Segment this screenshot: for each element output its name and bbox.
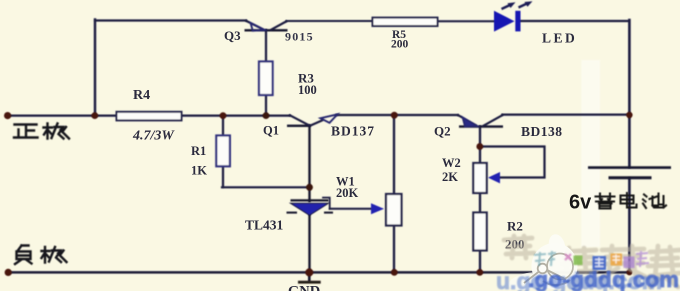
watermark teal small text — [534, 251, 556, 266]
wire R1 bottom stub — [222, 166, 224, 187]
svg-text:LED: LED — [542, 31, 577, 46]
wire W1 top — [393, 115, 395, 194]
node positive rail endpoint — [4, 112, 11, 119]
svg-text:1K: 1K — [191, 164, 207, 178]
svg-text:200: 200 — [391, 39, 409, 51]
LED triangle — [494, 11, 515, 32]
wire TL431 anode to ground rail — [308, 215, 310, 273]
Q2 base bar — [459, 125, 503, 127]
glyph 蓄 — [596, 194, 615, 209]
W2 wiper arrow — [488, 172, 500, 183]
svg-text:R4: R4 — [133, 88, 150, 103]
node battery top junction — [626, 112, 632, 118]
svg-text:20K: 20K — [336, 186, 359, 200]
wire R1 to TL431 node — [222, 186, 310, 188]
Q3 collector slant — [270, 21, 287, 30]
erased white band — [582, 60, 601, 247]
battery short plate — [609, 176, 652, 179]
watermark blue url text — [496, 267, 679, 291]
node W1 junction — [391, 112, 398, 119]
Q3 base bar — [245, 29, 288, 31]
Q1 emitter arrow — [321, 114, 338, 123]
TL431 U1 — [245, 200, 333, 232]
resistor R4 — [117, 88, 182, 144]
Q2 emitter arrow — [463, 117, 478, 126]
svg-text:R1: R1 — [191, 144, 206, 158]
wire bottom negative rail — [8, 271, 630, 274]
Q1 emitter slant — [310, 120, 323, 126]
wire R3 to main rail — [265, 95, 267, 116]
svg-text:100: 100 — [298, 83, 317, 97]
wire W2 to R2 — [479, 193, 481, 213]
wire top left segment — [95, 19, 246, 21]
potentiometer W1 — [336, 175, 402, 226]
Q3 emitter slant — [246, 21, 265, 31]
wire right vertical lower (battery to bottom line) — [628, 179, 631, 273]
svg-text:Q3: Q3 — [224, 28, 241, 43]
wire R2 to bottom rail — [479, 251, 481, 273]
wire W2 wiper feedback loop — [480, 147, 545, 178]
transistor Q3 (9015 PNP) — [245, 21, 288, 31]
node negative rail endpoint — [5, 269, 12, 276]
svg-text:4.7/3W: 4.7/3W — [132, 129, 175, 144]
wire Q3 base to R3 — [265, 30, 267, 62]
node Q2 base junction — [476, 143, 483, 150]
watermark white circle logo — [507, 232, 578, 291]
potentiometer W2 — [442, 156, 500, 193]
LED emission arrow 2 — [519, 1, 533, 7]
Q1 base bar — [287, 125, 311, 127]
wire left riser — [94, 20, 96, 116]
W1 wiper arrow — [371, 203, 384, 214]
wire main rail Q2 to battery riser — [503, 113, 631, 115]
svg-text:.go-gddq.com: .go-gddq.com — [528, 267, 679, 291]
node battery bottom junction — [626, 269, 632, 275]
node 负极 negative terminal label — [15, 246, 67, 265]
node W1 bottom junction — [391, 269, 398, 276]
svg-text:9015: 9015 — [285, 30, 314, 44]
wire TL431 ref hook — [323, 198, 330, 209]
watermark colored tiles — [565, 251, 649, 270]
node ground junction — [305, 268, 313, 276]
svg-text:GND: GND — [288, 284, 320, 291]
wire TL431 ref to W1 wiper — [330, 208, 372, 210]
TL431 triangle — [291, 203, 329, 215]
Q2 collector slant — [482, 115, 503, 127]
TL431 cathode bar — [291, 199, 329, 201]
wire top right of Q3 to R5 — [287, 20, 373, 22]
svg-text:Q2: Q2 — [434, 124, 451, 139]
wire main rail R4 to Q1 — [182, 114, 290, 116]
svg-text:W2: W2 — [442, 156, 461, 170]
svg-text:BD138: BD138 — [521, 124, 563, 139]
wire Q1 base down to TL431 — [308, 126, 310, 202]
svg-text:BD137: BD137 — [331, 124, 375, 139]
svg-text:6v: 6v — [569, 192, 592, 214]
wire main rail Q1 to Q2 — [337, 114, 458, 116]
LED emission arrow 1 — [502, 2, 516, 9]
svg-text:2K: 2K — [442, 170, 458, 184]
wire Q2 base to W2 — [479, 127, 481, 164]
TL431 anode side ticks — [287, 212, 298, 214]
node TL431 ref junction — [306, 184, 313, 191]
transistor Q2 (BD138 PNP) — [458, 115, 504, 127]
Q2 emitter slant — [458, 115, 478, 126]
battery BT1 6v — [588, 168, 671, 178]
glyph 电 — [621, 193, 637, 208]
wire main positive rail left — [7, 114, 117, 116]
ground symbol GND — [288, 272, 321, 291]
LED D1 — [494, 1, 577, 45]
svg-text:R2: R2 — [507, 219, 523, 234]
battery label 6v蓄电池 — [569, 192, 666, 214]
node R3 junction — [263, 112, 270, 119]
watermark gray text — [504, 236, 680, 287]
node R2 bottom junction — [476, 269, 483, 276]
wire right vertical upper (corner to battery) — [628, 20, 631, 167]
wire W1 bottom — [393, 226, 395, 273]
node R1 junction — [220, 112, 227, 119]
resistor R2 — [473, 213, 524, 252]
svg-text:TL431: TL431 — [245, 218, 284, 233]
battery long plate — [588, 166, 671, 169]
glyph 池 — [643, 194, 666, 209]
wire LED to top-right corner — [520, 20, 629, 22]
transistor Q1 (BD137 NPN) — [287, 114, 338, 126]
resistor R1 — [191, 136, 230, 178]
node left riser junction — [91, 112, 98, 119]
wire R5 to LED — [438, 20, 495, 22]
svg-text:Q1: Q1 — [263, 124, 279, 138]
wire R1 top stub — [222, 116, 224, 136]
Q1 collector slant — [289, 115, 310, 126]
resistor R3 — [259, 62, 317, 98]
node 正极 positive terminal label — [14, 124, 69, 139]
LED cathode bar — [515, 11, 520, 32]
Q3 emitter arrow — [251, 23, 265, 31]
resistor R5 — [373, 18, 438, 51]
